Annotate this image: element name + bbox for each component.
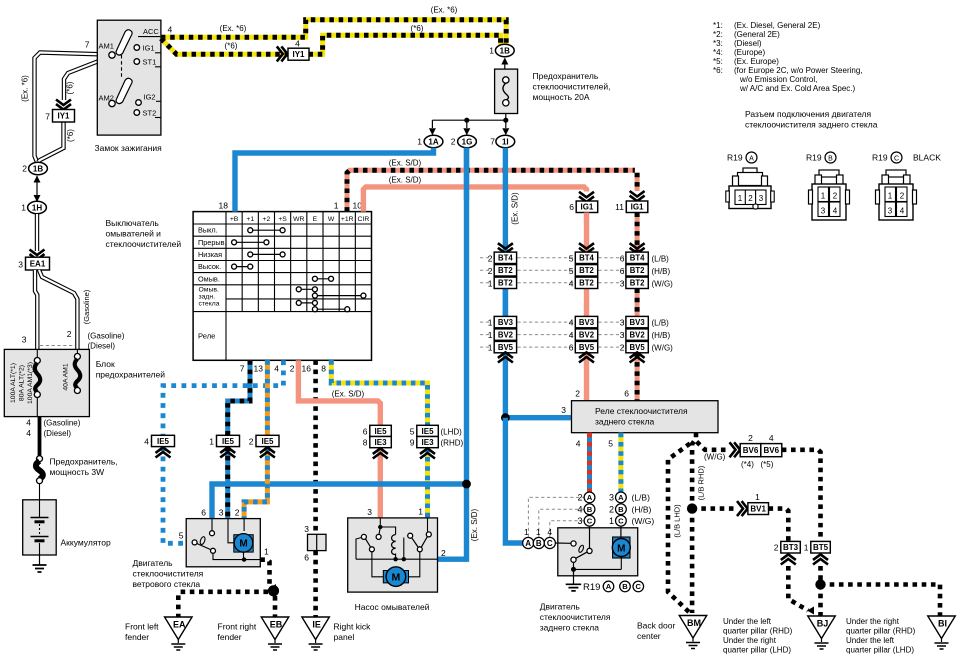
svg-text:1G: 1G — [462, 137, 473, 146]
svg-text:предохранителей: предохранителей — [96, 370, 166, 380]
svg-text:EA1: EA1 — [30, 260, 46, 269]
svg-text:4: 4 — [144, 436, 149, 446]
svg-text:R19: R19 — [806, 153, 822, 163]
svg-text:4: 4 — [833, 207, 838, 216]
svg-text:quarter pillar (RHD): quarter pillar (RHD) — [846, 627, 916, 636]
svg-text:6: 6 — [620, 266, 625, 276]
svg-text:80A ALT(*2): 80A ALT(*2) — [19, 365, 26, 401]
connector 11 IG1 — [630, 191, 645, 201]
connector column BV3/BV2/BV5 right with labels — [626, 316, 648, 327]
svg-text:quarter pillar (LHD): quarter pillar (LHD) — [723, 646, 791, 655]
wire EA1 to fuse block double-lines — [35, 270, 37, 349]
svg-text:fender: fender — [125, 632, 149, 642]
svg-text:quarter pillar (RHD): quarter pillar (RHD) — [723, 627, 793, 636]
wire BV1 to BT3 black dashed — [769, 509, 789, 542]
svg-text:5: 5 — [179, 531, 184, 541]
wire IY1 to 1B white double-line — [38, 122, 64, 163]
svg-text:IY1: IY1 — [57, 112, 70, 121]
svg-text:E: E — [313, 216, 318, 223]
battery ground — [39, 555, 41, 565]
svg-text:w/o Emission Control,: w/o Emission Control, — [739, 75, 817, 84]
svg-text:стеклоочистителей,: стеклоочистителей, — [533, 82, 611, 92]
svg-text:3: 3 — [620, 330, 625, 340]
svg-text:стеклоочистителей: стеклоочистителей — [106, 239, 182, 249]
wire junction to BV1 black dashed — [692, 506, 736, 511]
svg-text:1: 1 — [264, 547, 269, 557]
svg-text:Реле: Реле — [198, 332, 215, 341]
connector column BT4/BT2/BT2 middle — [575, 252, 597, 263]
svg-text:2: 2 — [235, 508, 240, 518]
svg-text:1B: 1B — [33, 164, 43, 173]
svg-text:6: 6 — [569, 343, 574, 353]
svg-text:1: 1 — [738, 194, 743, 203]
connector 4 IE5 — [156, 447, 171, 457]
svg-text:BV6: BV6 — [743, 446, 759, 455]
svg-text:(Ex. *6): (Ex. *6) — [431, 6, 458, 15]
svg-text:9: 9 — [410, 438, 415, 448]
connector 6 IG1 — [579, 192, 594, 202]
svg-text:3: 3 — [561, 405, 566, 415]
svg-text:стеклоочистителя: стеклоочистителя — [540, 612, 611, 622]
svg-text:(W/G): (W/G) — [704, 453, 726, 462]
svg-text:Разъем подключения двигателя: Разъем подключения двигателя — [745, 109, 871, 119]
svg-text:1: 1 — [417, 137, 422, 147]
wire +1 blue-black from table via IE5 — [228, 360, 250, 435]
svg-text:4: 4 — [569, 318, 574, 328]
wire 1B to 1H with arrows — [36, 176, 38, 201]
connector column BT4/BT2/BT2 right with labels — [626, 252, 648, 263]
chevrons above BT boxes — [498, 243, 513, 253]
chevrons below BV boxes — [498, 352, 513, 362]
wire CIR salmon solid — [363, 187, 586, 212]
svg-text:(Ex. Diesel, General 2E): (Ex. Diesel, General 2E) — [734, 21, 821, 30]
svg-text:BV2: BV2 — [579, 331, 595, 340]
svg-text:(L/B): (L/B) — [652, 254, 670, 263]
wire relay L/B LHD down black dashed — [668, 444, 690, 613]
svg-text:4: 4 — [295, 39, 300, 49]
svg-text:IE5: IE5 — [422, 427, 435, 436]
svg-text:6: 6 — [620, 253, 625, 263]
svg-text:M: M — [239, 539, 247, 550]
svg-text:BT4: BT4 — [579, 254, 594, 263]
svg-text:M: M — [617, 543, 625, 554]
svg-text:7: 7 — [45, 112, 50, 122]
svg-text:мощность 3W: мощность 3W — [50, 467, 105, 477]
svg-text:(L/B): (L/B) — [632, 493, 651, 503]
svg-text:2: 2 — [833, 192, 838, 201]
svg-text:Насос омывателей: Насос омывателей — [355, 602, 430, 612]
svg-text:(*6): (*6) — [66, 129, 75, 142]
svg-text:омывателей и: омывателей и — [106, 229, 162, 239]
svg-text:(L/B): (L/B) — [652, 319, 670, 328]
svg-text:AM1: AM1 — [99, 41, 114, 50]
svg-text:R19: R19 — [727, 153, 743, 163]
svg-text:BLACK: BLACK — [913, 153, 941, 163]
svg-text:Under the left: Under the left — [846, 636, 895, 645]
svg-text:BI: BI — [938, 619, 947, 629]
connector IY1 pin 7 chevron — [56, 100, 71, 110]
svg-text:8: 8 — [321, 364, 326, 374]
front wiper motor box — [186, 519, 260, 567]
wire ACC (Ex. *6) yellow-black upper run — [161, 20, 506, 45]
wire front motor pin1 black dashed to EA/EB grounds — [260, 560, 269, 584]
svg-text:(H/B): (H/B) — [652, 267, 671, 276]
svg-text:BM: BM — [687, 618, 701, 628]
svg-text:(W/G): (W/G) — [652, 279, 674, 288]
svg-text:*5:: *5: — [713, 57, 723, 66]
wire WR salmon from table to washer pump — [298, 360, 380, 425]
svg-text:w/ A/C and Ex. Cold Area Spec: w/ A/C and Ex. Cold Area Spec.) — [739, 84, 856, 93]
svg-text:2: 2 — [488, 266, 493, 276]
svg-text:2: 2 — [577, 493, 582, 503]
wire AM1 to 1B direct (Ex. *6) white double-line — [35, 53, 109, 163]
svg-text:BV3: BV3 — [498, 318, 514, 327]
wire 6IG1 down to BT chain salmon — [584, 213, 589, 253]
svg-text:A: A — [749, 155, 754, 162]
svg-text:1: 1 — [488, 330, 493, 340]
svg-text:Under the right: Under the right — [723, 636, 777, 645]
svg-text:40A AM1: 40A AM1 — [63, 363, 70, 390]
connector IY1 left — [53, 110, 75, 123]
svg-text:(H/B): (H/B) — [652, 331, 671, 340]
svg-text:R19: R19 — [583, 582, 600, 593]
svg-text:(Ex. S/D): (Ex. S/D) — [511, 192, 520, 225]
svg-text:стеклоочистителя заднего стекл: стеклоочистителя заднего стекла — [745, 120, 878, 130]
svg-text:W: W — [328, 216, 335, 223]
svg-text:1: 1 — [524, 527, 529, 537]
svg-text:3: 3 — [821, 207, 826, 216]
svg-text:7: 7 — [490, 137, 495, 147]
svg-text:2: 2 — [488, 253, 493, 263]
svg-text:B: B — [622, 582, 628, 591]
connector 1 IE5 — [220, 447, 235, 457]
fuse block box — [4, 349, 89, 416]
rear wiper relay box — [572, 401, 719, 433]
svg-text:BV3: BV3 — [579, 318, 595, 327]
svg-text:Замок зажигания: Замок зажигания — [95, 143, 163, 153]
svg-text:6: 6 — [569, 202, 574, 212]
svg-text:Низкая: Низкая — [198, 250, 222, 259]
svg-text:IG1: IG1 — [143, 43, 155, 52]
svg-text:B: B — [828, 155, 833, 162]
rear motor ground — [573, 569, 575, 584]
connector column BV3/BV2/BV5 middle — [575, 316, 597, 327]
table contact rows — [250, 229, 282, 231]
svg-text:IG1: IG1 — [631, 203, 644, 212]
svg-text:2: 2 — [900, 192, 905, 201]
svg-text:C: C — [894, 155, 899, 162]
wire 1H to EA1 double-line — [35, 214, 39, 251]
svg-text:Двигатель: Двигатель — [540, 602, 581, 612]
connector IY1 right — [288, 48, 309, 60]
svg-text:IE: IE — [312, 620, 321, 630]
svg-text:1: 1 — [536, 527, 541, 537]
svg-text:стекла: стекла — [199, 301, 220, 308]
svg-text:4: 4 — [576, 439, 581, 449]
svg-text:4: 4 — [26, 428, 31, 438]
svg-text:BT4: BT4 — [630, 254, 645, 263]
wire fuse to distribution node — [432, 114, 505, 121]
svg-text:Аккумулятор: Аккумулятор — [61, 538, 111, 548]
wire +2 orange-blue from table via IE5 — [265, 360, 270, 435]
svg-text:center: center — [637, 631, 661, 641]
svg-text:EA: EA — [173, 620, 186, 630]
svg-text:BJ: BJ — [817, 619, 829, 629]
svg-text:1: 1 — [609, 516, 614, 526]
svg-text:3: 3 — [620, 318, 625, 328]
wire W yellow-blue from table to washer pump — [331, 360, 427, 425]
svg-text:Under the right: Under the right — [846, 617, 900, 626]
svg-text:(*4): (*4) — [741, 460, 754, 469]
connector 1I oval — [496, 135, 515, 147]
svg-text:fender: fender — [218, 632, 242, 642]
washer pump box — [348, 518, 438, 592]
svg-text:1: 1 — [21, 203, 26, 213]
svg-text:(Ex. S/D): (Ex. S/D) — [389, 159, 422, 168]
svg-text:3: 3 — [18, 260, 23, 270]
front motor M symbol — [234, 535, 253, 552]
svg-text:(L/B LHD): (L/B LHD) — [673, 504, 682, 538]
svg-text:3: 3 — [304, 524, 309, 534]
svg-text:(Ex. *6): (Ex. *6) — [220, 24, 247, 33]
svg-text:задн.: задн. — [199, 294, 216, 301]
svg-text:3: 3 — [219, 508, 224, 518]
connector IY1 pin 4 chevron — [277, 46, 288, 61]
svg-text:(Ex. S/D): (Ex. S/D) — [389, 175, 422, 184]
svg-text:4: 4 — [569, 330, 574, 340]
svg-text:заднего стекла: заднего стекла — [595, 417, 655, 427]
svg-text:Выкл.: Выкл. — [198, 226, 218, 235]
junction dot L/B — [690, 509, 695, 613]
svg-text:Реле стеклоочистителя: Реле стеклоочистителя — [595, 406, 688, 416]
svg-text:18: 18 — [219, 201, 229, 211]
svg-text:Предохранитель: Предохранитель — [533, 71, 599, 81]
svg-text:1: 1 — [489, 46, 494, 56]
svg-text:11: 11 — [615, 202, 624, 212]
rear wiper motor box — [558, 528, 638, 576]
svg-text:BV2: BV2 — [498, 331, 514, 340]
connector 1G oval — [458, 135, 477, 147]
wire relay pin5 yellow-blue to R19 A — [618, 433, 623, 493]
svg-text:A: A — [525, 539, 531, 548]
svg-text:*1:: *1: — [713, 21, 723, 30]
connector column BV3/BV2/BV5 left — [494, 316, 516, 327]
svg-text:BT2: BT2 — [579, 279, 594, 288]
svg-text:2: 2 — [451, 137, 456, 147]
svg-text:IE3: IE3 — [422, 438, 435, 447]
svg-text:*2:: *2: — [713, 30, 723, 39]
svg-text:заднего стекла: заднего стекла — [540, 623, 600, 633]
main blue bus from 1G — [235, 148, 434, 212]
svg-text:4: 4 — [569, 278, 574, 288]
svg-text:(H/B): (H/B) — [632, 504, 652, 514]
svg-text:ветрового стекла: ветрового стекла — [133, 579, 201, 589]
svg-text:5: 5 — [569, 266, 574, 276]
svg-text:BV1: BV1 — [750, 505, 766, 514]
svg-text:(Gasoline): (Gasoline) — [82, 289, 91, 324]
connector BV1 — [737, 501, 748, 516]
svg-text:panel: panel — [334, 632, 355, 642]
svg-text:2: 2 — [67, 329, 72, 339]
svg-text:(*6): (*6) — [411, 24, 424, 33]
rear wiper motor pins A B C — [523, 537, 534, 548]
svg-text:WR: WR — [293, 216, 304, 223]
svg-text:1: 1 — [488, 343, 493, 353]
svg-text:A: A — [587, 493, 593, 502]
ground IE right kick panel — [302, 617, 330, 640]
svg-text:+1R: +1R — [341, 216, 354, 223]
svg-text:A: A — [606, 582, 612, 591]
svg-text:(General 2E): (General 2E) — [734, 30, 780, 39]
wire 3W fuse to battery — [39, 484, 41, 501]
svg-text:1: 1 — [821, 192, 826, 201]
svg-text:*6:: *6: — [713, 66, 723, 75]
svg-text:(RHD): (RHD) — [441, 439, 464, 448]
svg-text:мощность 20A: мощность 20A — [533, 92, 590, 102]
fusible link symbol right 40A — [76, 349, 78, 354]
connector 2 BT3 — [781, 541, 801, 553]
ground EB front right fender — [261, 617, 289, 640]
fusible link 3W symbol — [37, 456, 43, 462]
svg-text:BV5: BV5 — [498, 343, 514, 352]
svg-text:(Diesel): (Diesel) — [44, 429, 72, 438]
svg-text:EB: EB — [270, 620, 283, 630]
battery symbol — [39, 500, 41, 517]
svg-text:4: 4 — [769, 433, 774, 443]
svg-text:1: 1 — [755, 492, 760, 502]
svg-text:2: 2 — [249, 436, 254, 446]
svg-text:1: 1 — [418, 507, 423, 517]
svg-text:2: 2 — [620, 343, 625, 353]
svg-text:3: 3 — [759, 194, 764, 203]
svg-text:1I: 1I — [502, 137, 509, 146]
svg-text:Предохранитель,: Предохранитель, — [50, 457, 118, 467]
svg-text:BT2: BT2 — [630, 279, 645, 288]
svg-text:(Ex. S/D): (Ex. S/D) — [332, 390, 365, 399]
svg-text:IE5: IE5 — [157, 437, 170, 446]
svg-text:Front left: Front left — [125, 622, 159, 632]
gray dashed links between BT/BV columns — [480, 257, 489, 259]
svg-text:BV5: BV5 — [630, 343, 646, 352]
svg-text:(*6): (*6) — [66, 81, 75, 94]
connector 3/6 pass-through — [308, 534, 327, 550]
svg-text:(Ex. S/D): (Ex. S/D) — [470, 508, 479, 541]
svg-text:IG1: IG1 — [580, 203, 593, 212]
ground EA front left fender — [165, 617, 193, 640]
gray dashed links to rear motor pins — [528, 497, 583, 536]
wire BT5 down to BJ and BI black dashed — [818, 566, 823, 617]
connector BV6 BV6 — [730, 442, 741, 457]
svg-text:B: B — [618, 505, 624, 514]
svg-text:C: C — [636, 582, 642, 591]
ground BJ — [808, 616, 836, 639]
svg-text:1B: 1B — [500, 46, 510, 55]
svg-text:C: C — [618, 517, 624, 526]
connector 1 BT5 — [811, 541, 831, 553]
svg-text:3: 3 — [22, 335, 27, 345]
svg-text:(Ex. Europe): (Ex. Europe) — [734, 57, 779, 66]
connector 1A oval — [424, 135, 443, 147]
wire relay pin4 blue-red to R19 A — [587, 433, 592, 493]
ground BM back door center — [679, 616, 707, 639]
svg-text:+1: +1 — [246, 216, 254, 223]
svg-text:(Gasoline): (Gasoline) — [88, 332, 125, 341]
svg-text:Back door: Back door — [637, 621, 675, 631]
svg-text:BT5: BT5 — [813, 543, 829, 552]
svg-text:Омыв.: Омыв. — [199, 287, 219, 294]
svg-text:BT2: BT2 — [579, 266, 594, 275]
wire 1I through BT chain blue — [503, 289, 508, 317]
svg-text:IE3: IE3 — [375, 438, 388, 447]
wire 11IG1 down to BT chain salmon-black — [635, 213, 640, 253]
svg-text:BV2: BV2 — [630, 331, 646, 340]
svg-text:CIR: CIR — [358, 216, 370, 223]
washer pump internals — [379, 518, 381, 525]
wire BV6 to BT5 black dashed — [782, 450, 821, 542]
svg-text:16: 16 — [302, 364, 312, 374]
svg-text:IG2: IG2 — [144, 92, 156, 101]
svg-text:Омыв.: Омыв. — [198, 274, 220, 283]
svg-text:R19: R19 — [872, 153, 888, 163]
connector 1B left oval — [29, 162, 48, 174]
svg-text:1: 1 — [804, 543, 809, 553]
wire ACC (*6) yellow-black via IY1 — [161, 39, 288, 55]
svg-text:13: 13 — [254, 364, 264, 374]
ground BI — [928, 616, 956, 639]
svg-text:3: 3 — [367, 507, 372, 517]
svg-text:Высок.: Высок. — [198, 262, 221, 271]
svg-text:2: 2 — [22, 164, 27, 174]
blue verticals redraw over salmon — [464, 148, 469, 200]
svg-text:7: 7 — [85, 40, 90, 50]
connector column BT4/BT2/BT2 left — [494, 252, 516, 263]
svg-text:2: 2 — [748, 194, 753, 203]
wire E black dashed from table to IE ground — [313, 360, 318, 534]
svg-text:BV3: BV3 — [630, 318, 646, 327]
connector 1B right oval — [495, 44, 514, 56]
rear wiper motor M symbol — [620, 527, 622, 538]
wire fuse block to 3W fuse thick black — [38, 417, 42, 456]
ignition switch box — [97, 20, 161, 135]
svg-text:ACC: ACC — [143, 27, 159, 36]
svg-text:1: 1 — [888, 192, 893, 201]
svg-text:Under the left: Under the left — [723, 617, 772, 626]
svg-text:1: 1 — [334, 201, 339, 211]
svg-text:6: 6 — [363, 426, 368, 436]
svg-text:BT2: BT2 — [498, 266, 513, 275]
svg-text:5: 5 — [608, 439, 613, 449]
connector 1H oval — [28, 201, 47, 213]
svg-text:3: 3 — [888, 207, 893, 216]
drop arrows to 1A 1G 1I — [431, 120, 433, 128]
svg-text:(W/G): (W/G) — [652, 344, 674, 353]
svg-text:5: 5 — [569, 253, 574, 263]
svg-text:8: 8 — [363, 438, 368, 448]
svg-text:4: 4 — [577, 504, 582, 514]
wire +1R salmon-black checkered — [347, 170, 635, 211]
svg-text:BT4: BT4 — [498, 254, 513, 263]
svg-text:Двигатель: Двигатель — [133, 558, 174, 568]
wire BT3 down to BJ black dashed — [788, 566, 808, 611]
svg-text:3: 3 — [620, 278, 625, 288]
svg-text:1H: 1H — [32, 203, 42, 212]
svg-text:1A: 1A — [428, 137, 438, 146]
svg-text:M: M — [392, 572, 401, 584]
svg-text:2: 2 — [748, 433, 753, 443]
svg-text:стеклоочистителя: стеклоочистителя — [133, 569, 204, 579]
svg-text:BT2: BT2 — [630, 266, 645, 275]
washer pump M symbol — [372, 559, 386, 577]
